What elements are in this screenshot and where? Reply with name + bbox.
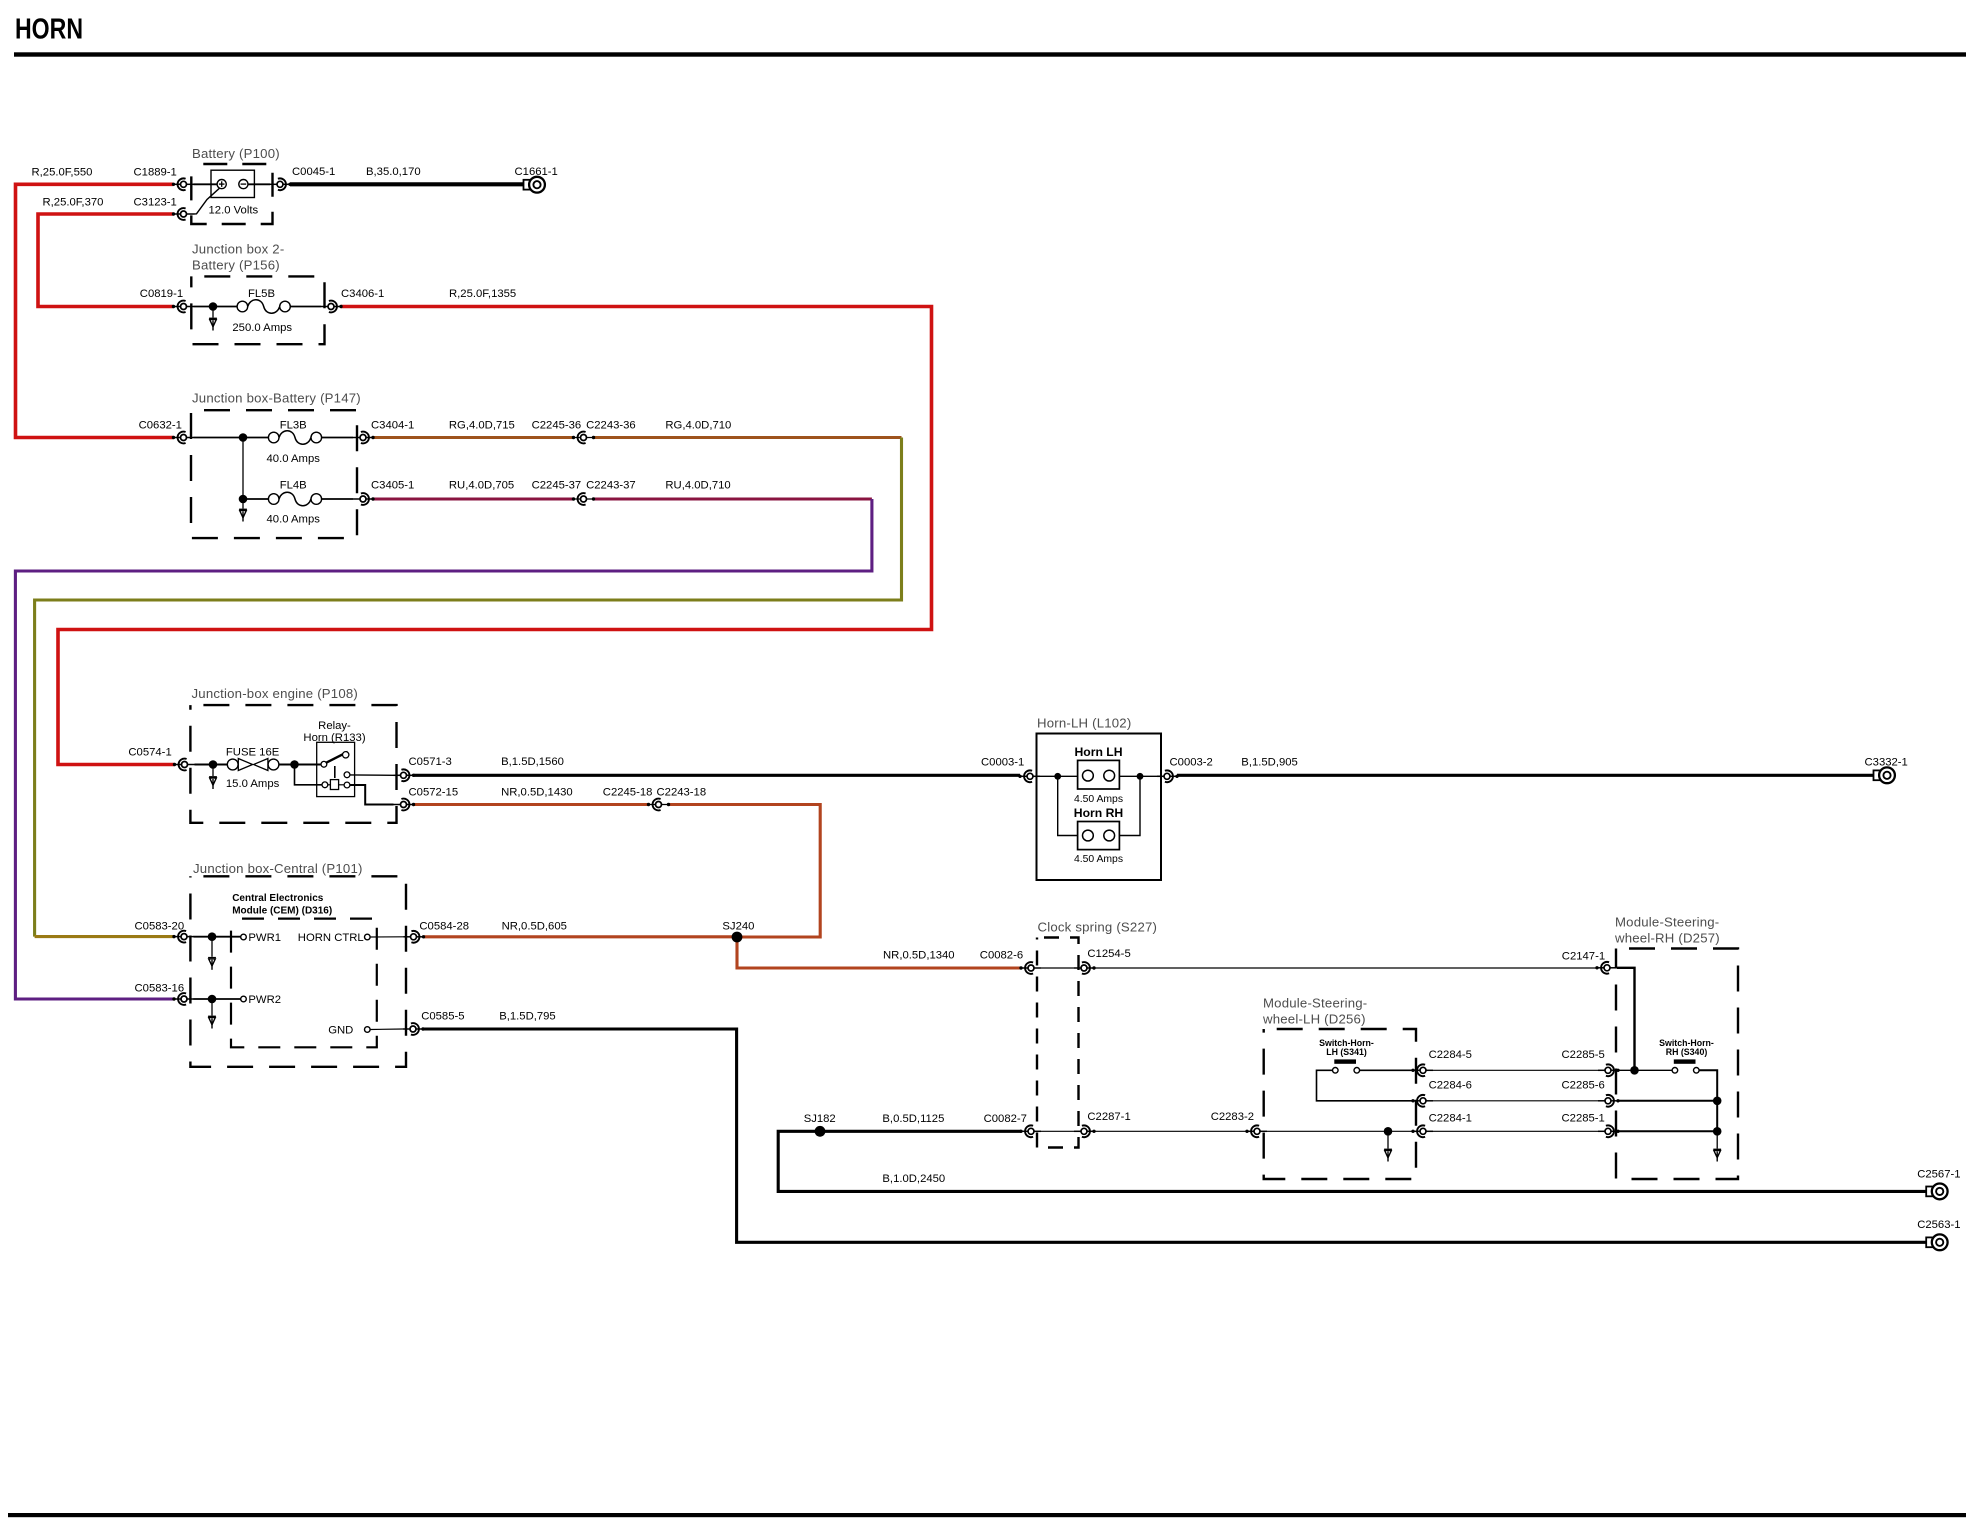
wire clock spring horn feed internal	[1041, 967, 1074, 969]
svg-text:C0045-1: C0045-1	[292, 166, 335, 178]
node D257 ground junction	[1713, 1127, 1722, 1136]
relay coil pin left	[322, 782, 328, 788]
relay coil box	[330, 780, 338, 790]
svg-text:B,0.5D,1125: B,0.5D,1125	[882, 1113, 944, 1125]
connector C2284-1	[1411, 1125, 1433, 1137]
connector C0082-7	[1019, 1125, 1041, 1137]
wire battery positive to C3123-1	[194, 188, 220, 214]
ground arrow P156	[209, 318, 217, 330]
node SJ240 splice	[732, 932, 743, 943]
svg-text:C0082-6: C0082-6	[980, 949, 1023, 961]
svg-text:PWR1: PWR1	[248, 932, 281, 944]
svg-text:B,1.5D,795: B,1.5D,795	[499, 1011, 556, 1023]
connector C0045-1	[270, 178, 292, 190]
connector C0572-15	[394, 799, 416, 811]
svg-text:Central Electronics: Central Electronics	[232, 893, 324, 904]
svg-text:wheel-LH (D256): wheel-LH (D256)	[1262, 1012, 1366, 1027]
node PWR1 junction	[208, 932, 217, 941]
switch horn LH S341	[1333, 1059, 1360, 1073]
node horn left junction	[1054, 773, 1061, 780]
node PWR2 junction	[208, 995, 217, 1004]
svg-text:SJ182: SJ182	[804, 1113, 836, 1125]
node P156 junction	[209, 302, 218, 311]
relay switch blade	[326, 752, 348, 763]
svg-text:Clock spring (S227): Clock spring (S227)	[1038, 920, 1158, 935]
svg-text:C0082-7: C0082-7	[984, 1113, 1027, 1125]
svg-text:FL5B: FL5B	[248, 288, 275, 300]
wire S341 to C2284-5	[1360, 1069, 1413, 1071]
connector C2245-18 C2243-18 inline	[647, 799, 670, 811]
svg-text:C3405-1: C3405-1	[371, 479, 414, 491]
fuse FUSE 16E	[227, 759, 279, 771]
svg-text:FL4B: FL4B	[280, 479, 307, 491]
svg-text:RH (S340): RH (S340)	[1666, 1047, 1708, 1057]
svg-text:C0632-1: C0632-1	[139, 420, 182, 432]
top rule	[14, 52, 1966, 56]
node D257 junction upper	[1713, 1097, 1722, 1106]
wire RU purple run into C0583-16	[15, 499, 872, 999]
wire relay output to C0571-3	[350, 774, 394, 776]
svg-text:C3406-1: C3406-1	[341, 288, 384, 300]
svg-text:C2284-5: C2284-5	[1429, 1049, 1472, 1061]
svg-text:12.0 Volts: 12.0 Volts	[209, 205, 259, 217]
wire HORN CTRL to C0584-28	[370, 936, 403, 938]
svg-text:4.50 Amps: 4.50 Amps	[1074, 854, 1123, 865]
bottom rule	[8, 1513, 1966, 1517]
node D257 switch feed junction	[1630, 1066, 1639, 1075]
svg-text:C0584-28: C0584-28	[419, 921, 469, 933]
junction box central P101 dashed bracket	[190, 876, 406, 1067]
svg-text:C2287-1: C2287-1	[1087, 1111, 1130, 1123]
svg-text:FL3B: FL3B	[280, 420, 307, 432]
connector C2285-6	[1598, 1095, 1620, 1107]
horn LH element box	[1078, 760, 1120, 789]
pin PWR2	[241, 996, 247, 1002]
wire C2147-1 into D257 down to switch line	[1617, 968, 1635, 1071]
svg-text:LH (S341): LH (S341)	[1326, 1047, 1367, 1057]
svg-text:NR,0.5D,1430: NR,0.5D,1430	[501, 787, 573, 799]
wire horn RH branch left	[1058, 776, 1078, 835]
svg-text:R,25.0F,1355: R,25.0F,1355	[449, 288, 516, 300]
wire P108 internal feed	[195, 764, 228, 766]
wire relay coil to C0572-15	[350, 785, 394, 805]
node P108 junction at relay	[290, 760, 299, 769]
svg-text:C2245-18: C2245-18	[603, 787, 653, 799]
connector C0632-1	[172, 432, 194, 444]
connector C3123-1	[172, 208, 194, 220]
wire C2284-6 to C2285-6	[1433, 1100, 1598, 1102]
wire RU,4.0D,710 (maroon)	[594, 497, 872, 500]
wire C2284-1 to C2285-1	[1433, 1130, 1598, 1132]
svg-text:15.0 Amps: 15.0 Amps	[226, 778, 280, 790]
connector C0585-5	[403, 1023, 425, 1035]
svg-text:Module-Steering-: Module-Steering-	[1263, 996, 1367, 1011]
svg-text:B,1.5D,1560: B,1.5D,1560	[501, 756, 564, 768]
connector C2245-36 C2243-36 inline	[572, 432, 595, 444]
node D256 ground junction	[1384, 1127, 1393, 1136]
svg-text:SJ240: SJ240	[722, 921, 754, 933]
svg-text:RU,4.0D,710: RU,4.0D,710	[665, 479, 730, 491]
wire S341 to C2284-6	[1317, 1070, 1414, 1101]
battery P100 component	[191, 164, 272, 224]
ground arrow PWR2	[208, 1016, 216, 1028]
connector C2285-5	[1598, 1064, 1620, 1076]
svg-text:R,25.0F,550: R,25.0F,550	[32, 167, 93, 179]
svg-text:PWR2: PWR2	[248, 994, 281, 1006]
battery plus terminal	[217, 180, 226, 189]
svg-text:Module-Steering-: Module-Steering-	[1615, 915, 1719, 930]
wire C2284-5 to C2285-5	[1433, 1069, 1598, 1071]
pin HORN CTRL	[365, 934, 371, 940]
svg-text:C0572-15: C0572-15	[409, 787, 459, 799]
wire P147 internal FL3B row	[194, 437, 269, 439]
node horn right junction	[1137, 773, 1144, 780]
svg-text:Junction box-Central (P101): Junction box-Central (P101)	[193, 861, 363, 876]
wire battery internal link	[194, 183, 218, 185]
connector C2563-1 ring terminal	[1926, 1234, 1947, 1250]
svg-text:C1661-1: C1661-1	[515, 166, 558, 178]
wire GND to C0585-5	[370, 1028, 403, 1031]
svg-text:C3123-1: C3123-1	[134, 196, 177, 208]
battery symbol box	[211, 170, 254, 197]
svg-text:B,1.0D,2450: B,1.0D,2450	[882, 1173, 945, 1185]
wire B,0.5D,1125 and B,1.0D,2450 (black via SJ182 to C2567-1)	[778, 1131, 1927, 1191]
connector C3332-1 ring terminal	[1874, 767, 1895, 783]
svg-text:HORN CTRL: HORN CTRL	[298, 932, 364, 944]
junction box battery P147 dashed bracket	[191, 410, 357, 538]
connector C0819-1	[172, 301, 194, 313]
node P147 junction FL4B	[239, 495, 248, 504]
ground arrow P108	[209, 777, 217, 789]
svg-text:C0583-20: C0583-20	[135, 921, 185, 933]
wire B,35.0,170 (black battery negative)	[290, 182, 525, 186]
svg-text:Junction-box engine (P108): Junction-box engine (P108)	[192, 686, 358, 701]
svg-text:C0003-1: C0003-1	[981, 756, 1024, 768]
connector C0003-2	[1157, 770, 1179, 782]
svg-text:C1889-1: C1889-1	[134, 167, 177, 179]
svg-text:Horn (R133): Horn (R133)	[303, 732, 365, 744]
wire NR,0.5D,1120 (rust to SJ240)	[669, 805, 821, 938]
ground arrow D257	[1713, 1149, 1721, 1161]
module steering wheel RH D257 dashed bracket	[1616, 949, 1738, 1180]
connector C1254-5	[1074, 962, 1096, 974]
relay switch NO pin	[343, 752, 349, 758]
svg-text:Junction box-Battery (P147): Junction box-Battery (P147)	[192, 391, 361, 406]
wire PWR1 internal	[194, 936, 241, 938]
connector C1889-1	[172, 178, 194, 190]
wire B,1.5D,905 (black horn to C3332-1)	[1177, 774, 1875, 777]
relay coil pin right	[344, 782, 350, 788]
connector C2284-6	[1411, 1095, 1433, 1107]
junction box 2 P156 dashed bracket	[191, 276, 324, 344]
svg-text:HORN: HORN	[15, 14, 83, 46]
svg-text:B,1.5D,905: B,1.5D,905	[1241, 756, 1298, 768]
svg-text:GND: GND	[328, 1024, 353, 1036]
module steering wheel LH D256 dashed bracket	[1264, 1029, 1416, 1179]
svg-text:NR,0.5D,605: NR,0.5D,605	[502, 921, 567, 933]
fusible link FL3B	[268, 431, 321, 445]
wire junction to S340	[1618, 1069, 1672, 1071]
wire R,25.0F,370 (red)	[38, 214, 174, 307]
svg-text:C1254-5: C1254-5	[1087, 948, 1130, 960]
pin PWR1	[241, 934, 247, 940]
svg-text:Horn RH: Horn RH	[1074, 806, 1123, 820]
svg-text:Module (CEM) (D316): Module (CEM) (D316)	[232, 906, 332, 917]
battery P100 dashed bracket	[191, 164, 272, 224]
svg-text:4.50 Amps: 4.50 Amps	[1074, 794, 1123, 805]
wire NR,0.5D,605 (rust from C0584-28 to SJ240)	[424, 935, 738, 938]
connector C3406-1	[321, 301, 343, 313]
wire P147 internal FL4B row	[243, 498, 269, 500]
svg-text:C2567-1: C2567-1	[1917, 1169, 1960, 1181]
connector C0584-28	[404, 931, 426, 943]
fusible link FL5B	[237, 300, 290, 314]
relay R133	[317, 742, 355, 796]
svg-text:C0574-1: C0574-1	[128, 747, 171, 759]
wire RG gold run into C0583-20	[35, 935, 174, 938]
svg-text:C2245-36: C2245-36	[532, 420, 582, 432]
svg-text:C2147-1: C2147-1	[1562, 950, 1605, 962]
wire RG,4.0D,715 (brown)	[373, 436, 574, 439]
svg-text:C2283-2: C2283-2	[1211, 1111, 1254, 1123]
svg-text:C0583-16: C0583-16	[135, 982, 185, 994]
svg-text:C0819-1: C0819-1	[140, 288, 183, 300]
svg-text:C2284-6: C2284-6	[1429, 1080, 1472, 1092]
svg-text:B,35.0,170: B,35.0,170	[366, 166, 421, 178]
wire NR,0.5D,1430 (rust)	[414, 803, 649, 806]
horn L102 solid box	[1037, 734, 1162, 881]
svg-text:Battery (P100): Battery (P100)	[192, 146, 280, 161]
connector C0583-16	[172, 993, 194, 1005]
wire NR,0.5D,1340 (rust SJ240 to C0082-6)	[737, 937, 1021, 968]
svg-text:FUSE 16E: FUSE 16E	[226, 747, 280, 759]
svg-text:C2284-1: C2284-1	[1429, 1112, 1472, 1124]
connector C2147-1	[1595, 962, 1617, 974]
connector C1661-1 ring terminal	[524, 177, 545, 193]
connector C0583-20	[172, 931, 194, 943]
svg-text:C2285-5: C2285-5	[1562, 1049, 1605, 1061]
ground arrow P147	[239, 509, 247, 521]
wire fuse to relay	[279, 764, 321, 766]
svg-text:40.0 Amps: 40.0 Amps	[267, 513, 321, 525]
wire C2287-1 to C2283-2	[1094, 1130, 1247, 1132]
svg-text:C2285-6: C2285-6	[1562, 1080, 1605, 1092]
wire P156 internal	[194, 306, 239, 308]
wire R,25.0F,550 / R,25.0F,370 battery feeds (red)	[16, 184, 174, 437]
wire C2283-2 to C2284-1	[1267, 1130, 1413, 1132]
relay switch common pin	[321, 761, 327, 767]
svg-text:RU,4.0D,705: RU,4.0D,705	[449, 479, 514, 491]
svg-text:250.0 Amps: 250.0 Amps	[232, 322, 292, 334]
connector C2287-1	[1074, 1125, 1096, 1137]
svg-text:C3332-1: C3332-1	[1865, 756, 1908, 768]
node P108 junction at fuse input	[209, 760, 218, 769]
svg-text:C2243-37: C2243-37	[586, 479, 636, 491]
junction box engine P108 dashed bracket	[190, 705, 396, 823]
connector C0003-1	[1018, 770, 1040, 782]
svg-text:R,25.0F,370: R,25.0F,370	[43, 196, 104, 208]
wire RG olive run down-left	[35, 438, 902, 937]
horn LH L102 component	[1037, 734, 1162, 881]
wire P147 junction link vertical	[242, 438, 244, 500]
connector C2283-2	[1245, 1125, 1267, 1137]
wire horn RH branch right	[1119, 776, 1140, 835]
wire C2285-6 to D257 junction	[1618, 1100, 1717, 1102]
svg-text:40.0 Amps: 40.0 Amps	[267, 453, 321, 465]
clock spring S227 dashed bracket	[1037, 938, 1079, 1148]
svg-text:RG,4.0D,715: RG,4.0D,715	[449, 420, 515, 432]
wire PWR2 internal	[194, 998, 241, 1000]
wire C2285-1 to D257 ground junction	[1618, 1130, 1717, 1132]
svg-text:C0571-3: C0571-3	[409, 756, 452, 768]
wire horn internal right	[1119, 775, 1161, 777]
wire R,25.0F,1355 (red to fuse 16E)	[58, 307, 932, 765]
node SJ182 splice	[815, 1126, 826, 1137]
svg-text:Relay-: Relay-	[318, 720, 351, 732]
connector C3404-1	[353, 432, 375, 444]
wire D257 junction link	[1716, 1101, 1718, 1132]
svg-text:C0003-2: C0003-2	[1170, 756, 1213, 768]
connector C0571-3	[394, 769, 416, 781]
wire C1254-5 to C2147-1	[1094, 967, 1597, 969]
relay R133 box	[317, 742, 355, 796]
svg-text:C2245-37: C2245-37	[532, 479, 582, 491]
ground arrow D256	[1384, 1149, 1392, 1161]
pin GND	[365, 1027, 371, 1033]
wire clock spring ground internal	[1041, 1130, 1074, 1132]
svg-text:Junction box 2-: Junction box 2-	[192, 242, 284, 257]
svg-text:Horn LH: Horn LH	[1074, 745, 1122, 759]
connector C2285-1	[1598, 1125, 1620, 1137]
svg-text:RG,4.0D,710: RG,4.0D,710	[665, 420, 731, 432]
svg-text:NR,0.5D,1340: NR,0.5D,1340	[883, 949, 955, 961]
wire B,1.5D,795 (black ground from C0585-5 to C2563-1)	[423, 1029, 1927, 1242]
connector C0082-6	[1019, 962, 1041, 974]
svg-text:C2243-18: C2243-18	[657, 787, 707, 799]
connector C2567-1 ring terminal	[1926, 1184, 1947, 1200]
wire coil feed elbow	[295, 765, 322, 785]
battery minus terminal	[239, 180, 248, 189]
wire RU,4.0D,705 (maroon)	[373, 497, 574, 500]
relay output pin	[344, 772, 350, 778]
svg-text:Horn-LH (L102): Horn-LH (L102)	[1037, 716, 1131, 731]
connector C2245-37 C2243-37 inline	[572, 493, 595, 505]
connector C3405-1	[353, 493, 375, 505]
svg-text:C2285-1: C2285-1	[1562, 1112, 1605, 1124]
CEM D316 inner dashed box	[231, 919, 377, 1048]
fusible link FL4B	[268, 492, 321, 506]
relay link dashed	[334, 766, 336, 778]
connector C0574-1	[173, 759, 195, 771]
wire B,1.5D,1560 (black horn feed)	[414, 774, 1021, 777]
ground arrow PWR1	[208, 958, 216, 970]
wire RG,4.0D,710 (brown then olive)	[594, 436, 902, 439]
horn RH element box	[1078, 822, 1120, 850]
svg-text:Battery (P156): Battery (P156)	[192, 258, 280, 273]
svg-text:C3404-1: C3404-1	[371, 420, 414, 432]
svg-text:wheel-RH (D257): wheel-RH (D257)	[1614, 931, 1720, 946]
svg-text:C2243-36: C2243-36	[586, 420, 636, 432]
wire S340 down to C2285-6 line	[1699, 1070, 1717, 1101]
node P147 junction FL3B	[239, 433, 248, 442]
svg-text:C0585-5: C0585-5	[421, 1011, 464, 1023]
wire horn internal left	[1037, 775, 1078, 777]
switch horn RH S340	[1672, 1059, 1699, 1073]
svg-text:C2563-1: C2563-1	[1917, 1219, 1960, 1231]
connector C2284-5	[1411, 1064, 1433, 1076]
